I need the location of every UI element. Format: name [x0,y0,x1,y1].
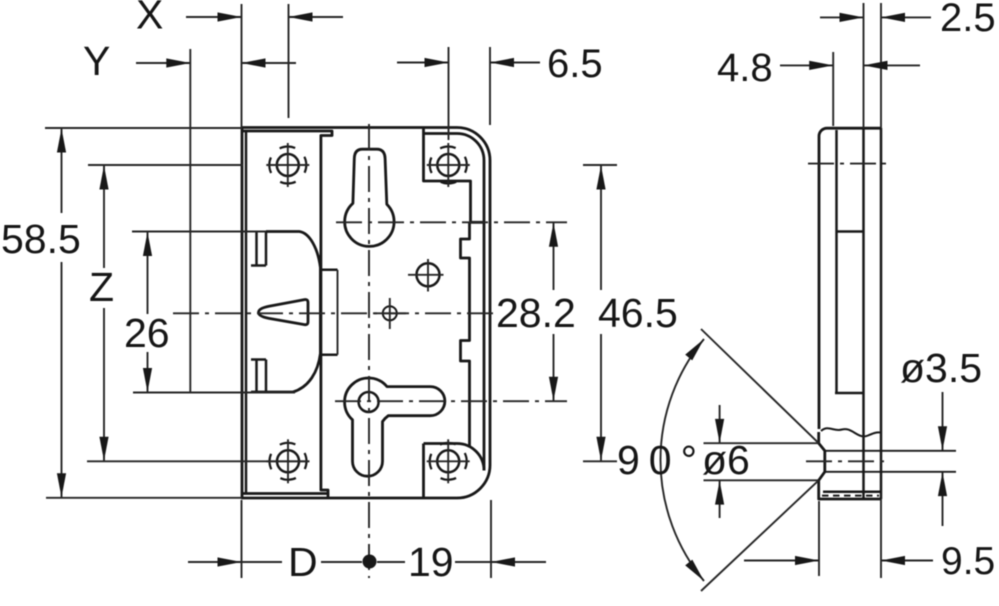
svg-text:Z: Z [89,264,114,310]
svg-text:Y: Y [83,38,110,84]
svg-text:46.5: 46.5 [598,290,678,336]
svg-text:90°: 90° [617,437,706,483]
svg-text:58.5: 58.5 [1,216,81,262]
svg-text:ø3.5: ø3.5 [900,345,982,391]
svg-text:D: D [288,539,318,585]
svg-text:4.8: 4.8 [717,46,773,90]
svg-text:9.5: 9.5 [941,540,995,583]
svg-text:2.5: 2.5 [940,0,996,40]
svg-text:19: 19 [408,539,454,585]
svg-text:6.5: 6.5 [547,42,603,86]
svg-text:ø6: ø6 [702,437,750,483]
svg-text:28.2: 28.2 [496,290,576,336]
svg-text:26: 26 [124,310,170,356]
svg-text:X: X [136,0,163,38]
